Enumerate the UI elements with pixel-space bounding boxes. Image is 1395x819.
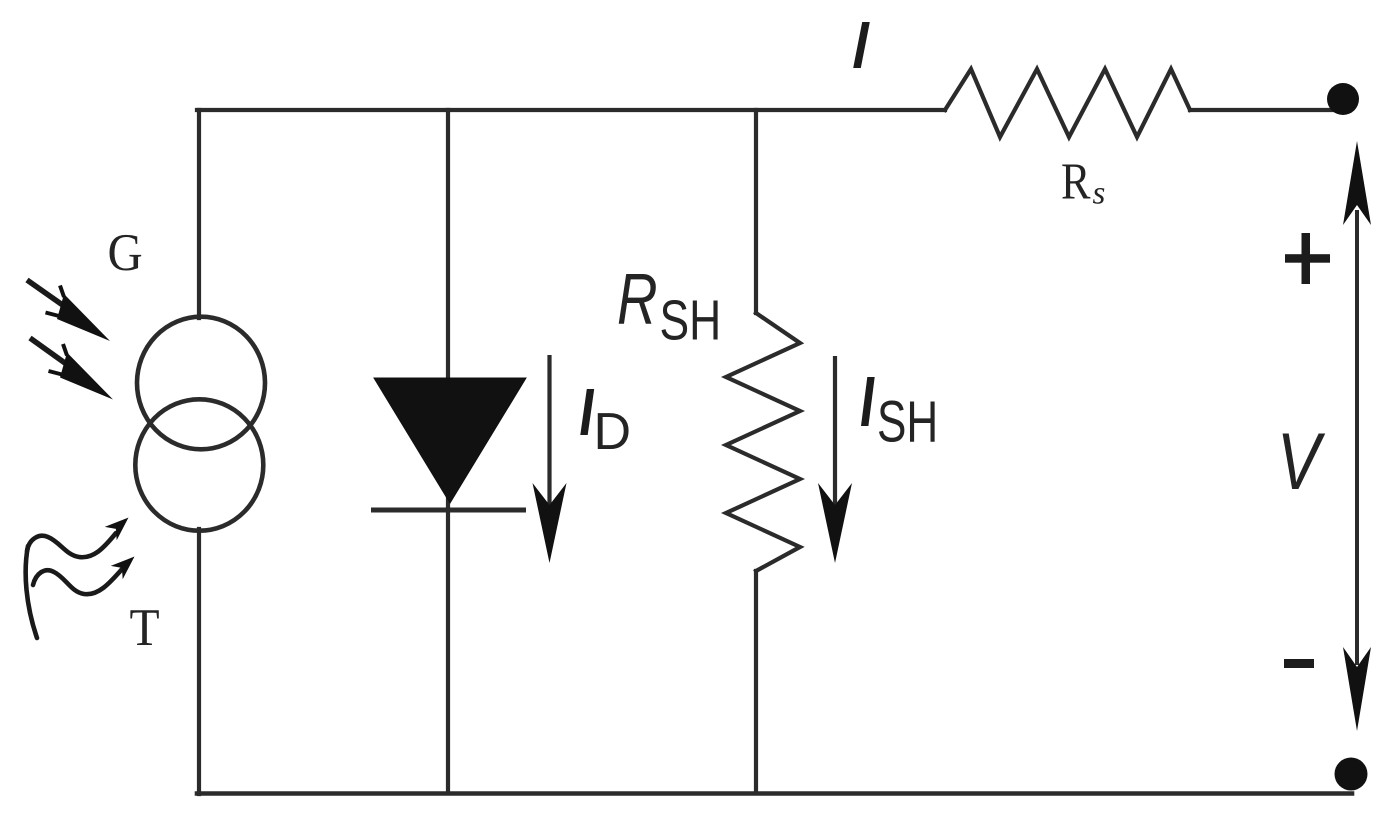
svg-text:s: s	[1093, 176, 1106, 212]
svg-text:SH: SH	[877, 388, 938, 453]
svg-text:T: T	[130, 598, 160, 657]
svg-text:D: D	[594, 403, 632, 461]
svg-text:SH: SH	[660, 288, 722, 352]
svg-text:V: V	[1277, 416, 1326, 507]
svg-text:R: R	[617, 259, 658, 339]
svg-text:G: G	[108, 224, 143, 282]
svg-text:R: R	[1061, 153, 1091, 210]
